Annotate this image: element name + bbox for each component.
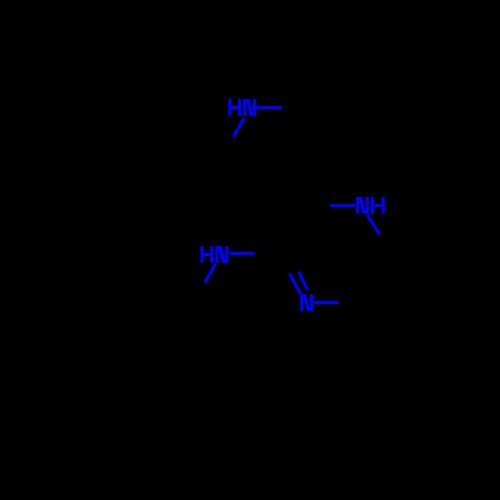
bond N-C diagonal (from left HN down-left) (205, 264, 216, 283)
bond N-C horizontal (from top HN to right) (256, 106, 282, 109)
bond N-C horizontal (from bottom N to right) (314, 301, 339, 304)
bond N-C horizontal (from left HN to right) (229, 252, 254, 255)
atom label N (bottom, imine ring N) (300, 294, 313, 311)
bond C-N horizontal (into right NH from left) (330, 204, 355, 207)
double bond C=N inner line (299, 271, 308, 289)
atom label NH (right, secondary amine N) (356, 197, 385, 214)
atom label HN (left, secondary amine N) (200, 246, 228, 263)
bond N-C diagonal (from top HN down-left) (233, 118, 244, 137)
bond N-C diagonal (from right NH down-right) (367, 215, 379, 235)
double bond C=N outer line (289, 274, 300, 295)
atom label HN (top, secondary amine N) (228, 99, 256, 116)
